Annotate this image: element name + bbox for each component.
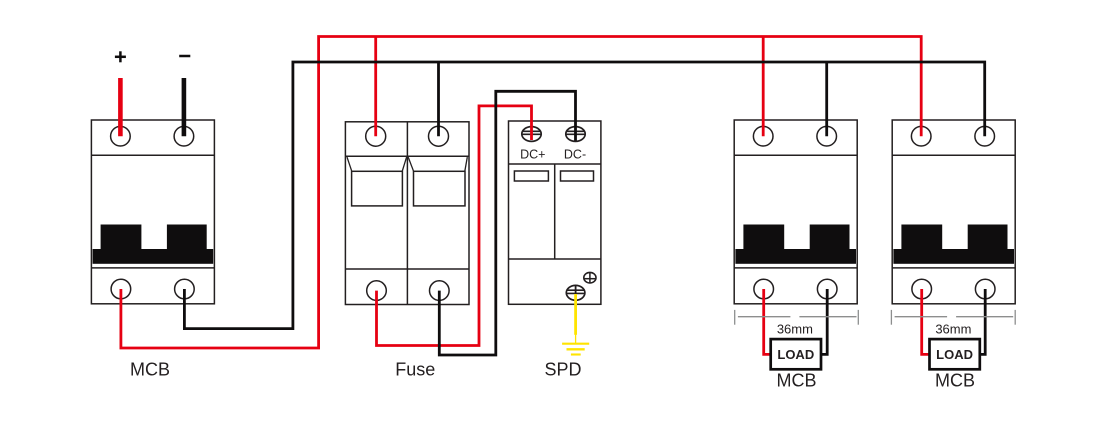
fuse pole 1 window bbox=[347, 157, 407, 206]
MCB right breaker 2 bbox=[892, 120, 1015, 304]
wire red branch to fuse bbox=[374, 37, 377, 137]
wire black branch to fuse bbox=[437, 62, 440, 136]
svg-text:DC-: DC- bbox=[564, 147, 586, 161]
wire black branch to breaker 1 bbox=[825, 62, 828, 136]
dimension 36mm breaker 1 bbox=[735, 310, 859, 325]
svg-text:DC+: DC+ bbox=[520, 147, 545, 161]
wire black negative cable bbox=[182, 78, 187, 136]
MCB left breaker bbox=[91, 120, 214, 304]
svg-text:MCB: MCB bbox=[130, 359, 170, 379]
label minus bbox=[179, 55, 190, 58]
label plus bbox=[115, 51, 126, 62]
svg-text:36mm: 36mm bbox=[935, 322, 971, 337]
wire yellow earth bbox=[574, 294, 577, 335]
wire red positive cable bbox=[118, 78, 123, 136]
SPD earth screw bbox=[566, 285, 585, 300]
wire black breaker1 to load bbox=[821, 289, 828, 354]
wire red breaker1 to load bbox=[764, 289, 771, 354]
wire red main bus from MCB out to breakers bbox=[121, 37, 921, 349]
SPD U1 body bbox=[509, 121, 601, 304]
SPD terminal DC+ screw bbox=[522, 127, 541, 142]
svg-text:LOAD: LOAD bbox=[936, 347, 973, 362]
ground symbol bbox=[562, 344, 589, 355]
svg-text:Fuse: Fuse bbox=[395, 359, 435, 379]
svg-text:SPD: SPD bbox=[544, 359, 581, 379]
wire black fuse to SPD DC- bbox=[439, 91, 575, 355]
wire black breaker2 to load bbox=[980, 289, 985, 354]
SPD indicator window 1 bbox=[514, 171, 548, 181]
svg-text:MCB: MCB bbox=[777, 370, 817, 390]
fuse terminal circles bbox=[366, 126, 449, 300]
SPD indicator window 2 bbox=[561, 171, 594, 181]
MCB right breaker 1 bbox=[734, 120, 857, 304]
LOAD box 2 bbox=[930, 339, 980, 369]
wire red breaker2 to load bbox=[922, 289, 930, 354]
svg-text:LOAD: LOAD bbox=[777, 347, 814, 362]
SPD small screw bbox=[584, 272, 596, 283]
fuse pole 2 window bbox=[408, 157, 467, 206]
svg-text:36mm: 36mm bbox=[777, 322, 813, 337]
wire red branch to breaker 1 bbox=[762, 37, 765, 137]
dimension 36mm breaker 2 bbox=[891, 310, 1015, 325]
LOAD box 1 bbox=[771, 339, 821, 369]
svg-text:MCB: MCB bbox=[935, 370, 975, 390]
fuse F1 body bbox=[345, 122, 469, 305]
wire red fuse to SPD DC+ bbox=[377, 106, 532, 346]
SPD terminal DC- screw bbox=[566, 127, 585, 142]
wire black main bus from MCB out to breakers bbox=[184, 62, 984, 329]
